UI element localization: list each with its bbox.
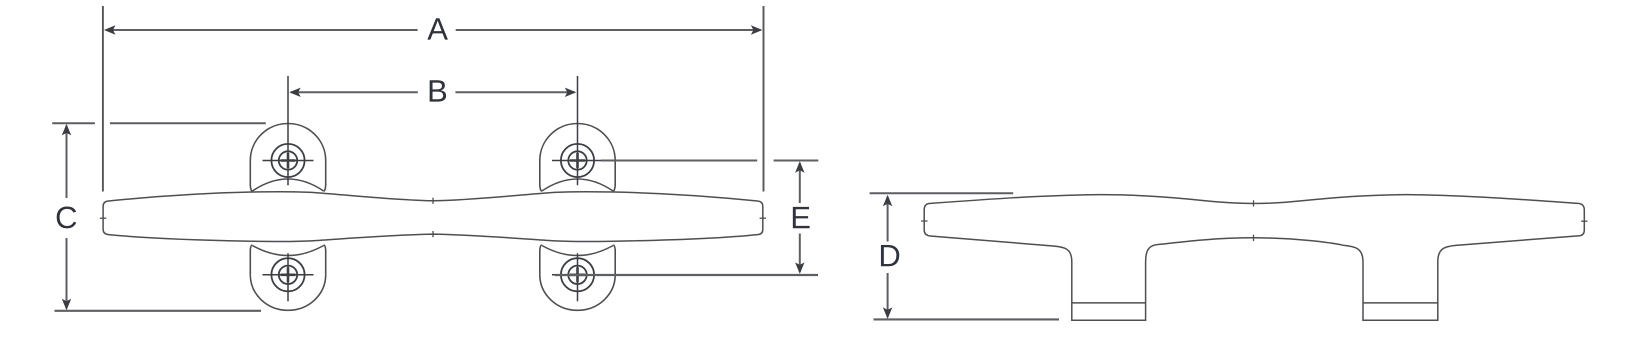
side view: cleat silhouette <box>924 195 1584 321</box>
dimension D top extension line <box>870 192 1014 194</box>
label D <box>881 245 899 266</box>
dimension A left arrowhead <box>104 25 116 34</box>
dimension A line <box>106 29 761 31</box>
side view centre tick top middle <box>1253 200 1255 206</box>
left pad lower collar arc <box>252 246 323 256</box>
screw bottom-right outer circle <box>561 258 594 291</box>
dimension D bottom extension line <box>874 318 1060 320</box>
dimension D top arrowhead <box>883 195 892 207</box>
side view centre tick bottom middle <box>1253 235 1255 241</box>
dimension B right arrowhead <box>565 88 577 97</box>
right pad lower sides <box>540 245 615 275</box>
screw top-left crosshair <box>263 76 314 185</box>
screw top-left outer circle <box>271 144 304 177</box>
screw top-right inner circle <box>568 151 586 169</box>
dimension D line <box>887 197 889 318</box>
side view right leg base plate line <box>1363 302 1438 304</box>
dimension C top arrowhead <box>62 124 71 135</box>
label A <box>427 18 448 39</box>
side view centre tick right tip <box>1581 220 1587 222</box>
left pad upper dome <box>250 123 325 160</box>
left pad lower sides <box>250 245 325 275</box>
right pad upper collar arc <box>542 179 613 191</box>
right pad upper sides <box>540 161 615 192</box>
dimension E top arrowhead <box>795 161 804 173</box>
side view left leg base plate line <box>1072 302 1146 304</box>
right pad lower collar arc <box>542 246 613 256</box>
dimension B line <box>291 91 575 93</box>
screw bottom-left center cross <box>281 267 296 282</box>
screw top-left center cross <box>281 153 296 168</box>
left pad upper collar arc <box>252 179 323 191</box>
screw top-right crosshair <box>552 76 603 185</box>
top view: cleat body outline <box>103 192 763 242</box>
dimension C bottom arrowhead <box>62 299 71 311</box>
label B <box>430 80 446 101</box>
screw top-right center cross <box>570 153 585 168</box>
top view centre tick bottom middle <box>432 231 434 237</box>
left pad upper sides <box>250 161 325 192</box>
right pad upper dome <box>540 124 615 161</box>
screw bottom-left crosshair <box>263 253 314 301</box>
screw bottom-right inner circle <box>568 266 586 284</box>
top view centre tick right tip <box>760 217 766 219</box>
dimension E line <box>799 163 801 272</box>
screw top-right outer circle <box>561 144 594 177</box>
dimension C bottom extension line <box>55 310 262 312</box>
left pad lower dome <box>250 275 325 311</box>
side view centre tick left tip <box>921 220 927 222</box>
screw bottom-left inner circle <box>279 266 297 284</box>
screw bottom-right crosshair <box>552 253 603 301</box>
dimension A left extension line <box>102 6 104 192</box>
dimension C line <box>66 126 68 309</box>
dimension A right extension line <box>763 6 765 192</box>
screw top-left inner circle <box>279 151 297 169</box>
dimension A right arrowhead <box>751 25 763 34</box>
label C <box>57 206 77 228</box>
dimension E bottom extension line <box>555 274 818 276</box>
dimension E top extension line <box>601 160 818 162</box>
top view centre tick left tip <box>100 217 106 219</box>
dimension E bottom arrowhead <box>795 262 804 274</box>
right pad lower dome <box>540 275 615 311</box>
label E <box>793 207 810 228</box>
top view centre tick top middle <box>432 198 434 204</box>
dimension D bottom arrowhead <box>883 307 892 319</box>
screw bottom-left outer circle <box>271 258 304 291</box>
screw bottom-right center cross <box>570 267 585 282</box>
dimension B left arrowhead <box>289 88 301 97</box>
dimension C top extension line <box>52 122 266 124</box>
